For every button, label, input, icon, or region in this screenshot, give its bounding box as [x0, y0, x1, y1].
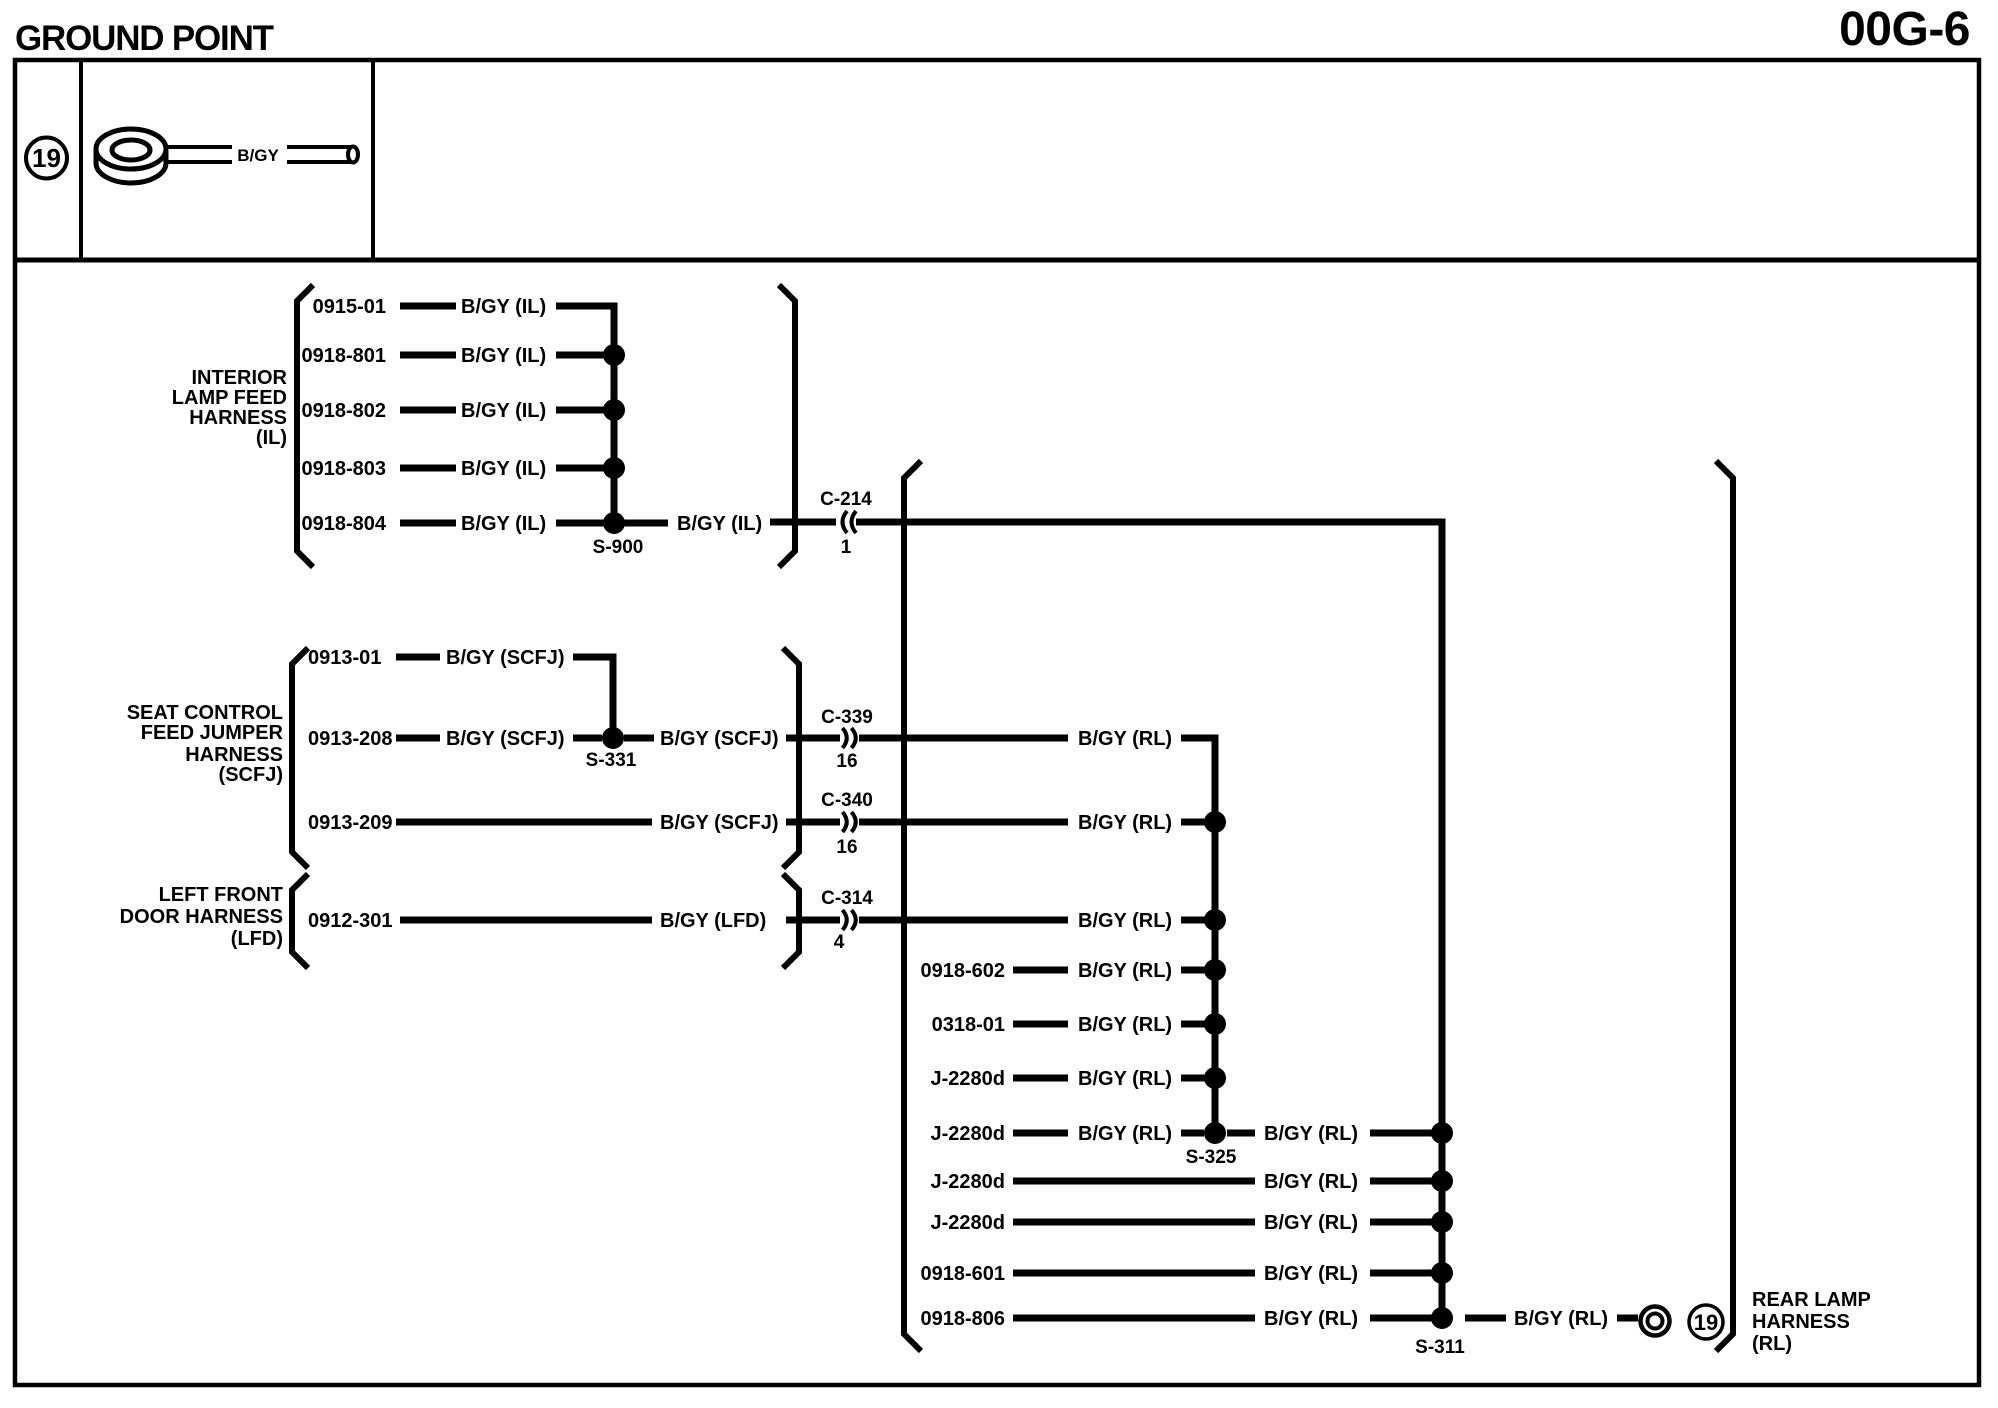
- svg-text:0912-301: 0912-301: [308, 910, 393, 932]
- svg-text:B/GY (RL): B/GY (RL): [1264, 1308, 1358, 1330]
- svg-text:B/GY (IL): B/GY (IL): [461, 345, 546, 367]
- svg-text:0918-601: 0918-601: [920, 1263, 1005, 1285]
- svg-text:B/GY (RL): B/GY (RL): [1264, 1171, 1358, 1193]
- harness label LEFT FRONT DOOR HARNESS (LFD): [120, 884, 283, 950]
- svg-text:C-340: C-340: [821, 790, 873, 811]
- svg-text:LAMP FEED: LAMP FEED: [172, 387, 287, 409]
- svg-text:S-331: S-331: [586, 750, 637, 771]
- bracket SCFJ left: [292, 648, 308, 868]
- svg-text:B/GY (IL): B/GY (IL): [677, 513, 762, 535]
- svg-text:0913-208: 0913-208: [308, 728, 393, 750]
- junction IL bus y=410: [603, 399, 625, 421]
- wire J-2280d B/GY (RL) into splice S-325: [931, 1123, 1205, 1145]
- svg-text:(LFD): (LFD): [231, 928, 283, 950]
- wire 0913-209 B/GY (SCFJ): [308, 812, 840, 834]
- wire 0918-801 B/GY (IL): [301, 345, 614, 367]
- svg-text:0318-01: 0318-01: [932, 1014, 1005, 1036]
- svg-text:B/GY (RL): B/GY (RL): [1514, 1308, 1608, 1330]
- bracket IL right: [779, 285, 795, 567]
- svg-text:0918-801: 0918-801: [301, 345, 386, 367]
- junction IL bus y=355: [603, 344, 625, 366]
- wire J-2280d B/GY (RL): [931, 1068, 1208, 1090]
- svg-text:B/GY (IL): B/GY (IL): [461, 513, 546, 535]
- bracket SCFJ right: [783, 648, 799, 868]
- svg-text:B/GY (IL): B/GY (IL): [461, 400, 546, 422]
- splice S-311: [1415, 1307, 1465, 1358]
- svg-text:0913-209: 0913-209: [308, 812, 393, 834]
- junction RL outer bus y=1273: [1431, 1262, 1453, 1284]
- svg-text:0918-806: 0918-806: [920, 1308, 1005, 1330]
- ground point number 19 (legend): [26, 138, 67, 179]
- splice S-900: [593, 512, 644, 558]
- wire 0918-804 B/GY (IL): [301, 513, 614, 535]
- svg-text:00G-6: 00G-6: [1839, 3, 1970, 56]
- wire B/GY (RL) from C-339 to bus: [859, 728, 1172, 750]
- junction RL bus at C-340 row: [1204, 811, 1226, 833]
- harness label INTERIOR LAMP FEED HARNESS (IL): [172, 367, 288, 449]
- bracket IL left: [297, 285, 313, 567]
- svg-text:19: 19: [1694, 1310, 1718, 1335]
- wire from 0913-01 down to splice S-331: [573, 657, 613, 738]
- wire 0318-01 B/GY (RL): [932, 1014, 1207, 1036]
- bracket RL right: [1716, 461, 1733, 1351]
- svg-text:LEFT FRONT: LEFT FRONT: [159, 884, 283, 906]
- svg-text:B/GY: B/GY: [237, 146, 279, 165]
- splice S-331: [586, 727, 637, 771]
- junction RL inner bus y=1078: [1204, 1067, 1226, 1089]
- wire 0912-301 B/GY (LFD): [308, 910, 840, 932]
- ground point number 19: [1689, 1305, 1723, 1339]
- wire J-2280d B/GY (RL): [931, 1212, 1443, 1234]
- junction RL outer bus y=1222: [1431, 1211, 1453, 1233]
- bracket LFD left: [292, 874, 308, 968]
- svg-text:HARNESS: HARNESS: [189, 407, 287, 429]
- svg-text:HARNESS: HARNESS: [185, 744, 283, 766]
- svg-text:B/GY (IL): B/GY (IL): [461, 458, 546, 480]
- svg-text:S-900: S-900: [593, 537, 644, 558]
- svg-text:0918-804: 0918-804: [301, 513, 386, 535]
- wire IL bus to splice S-900: [556, 306, 614, 523]
- svg-text:B/GY (RL): B/GY (RL): [1078, 1123, 1172, 1145]
- svg-text:B/GY (RL): B/GY (RL): [1264, 1263, 1358, 1285]
- connector C-340 pin 16: [821, 790, 873, 858]
- junction IL bus y=468: [603, 457, 625, 479]
- wire B/GY (SCFJ) from S-331 to C-339: [624, 728, 840, 750]
- wire RL inner bus down to splice S-325: [1181, 738, 1215, 1133]
- svg-text:B/GY (RL): B/GY (RL): [1078, 960, 1172, 982]
- wire 0918-602 B/GY (RL): [920, 960, 1207, 982]
- svg-text:0918-802: 0918-802: [301, 400, 386, 422]
- svg-text:B/GY (SCFJ): B/GY (SCFJ): [446, 728, 565, 750]
- ground point ring terminal: [1641, 1307, 1670, 1336]
- svg-text:B/GY (SCFJ): B/GY (SCFJ): [660, 812, 779, 834]
- svg-text:B/GY (RL): B/GY (RL): [1078, 910, 1172, 932]
- wire B/GY (IL) from S-900 to C-214: [614, 513, 836, 535]
- wire 0913-01 B/GY (SCFJ): [308, 647, 565, 669]
- svg-text:0915-01: 0915-01: [313, 296, 386, 318]
- svg-text:B/GY (LFD): B/GY (LFD): [660, 910, 766, 932]
- svg-text:0918-803: 0918-803: [301, 458, 386, 480]
- svg-text:B/GY (RL): B/GY (RL): [1078, 728, 1172, 750]
- connector C-214 pin 1: [820, 489, 872, 558]
- wire B/GY pigtail (legend): [166, 146, 358, 165]
- svg-text:B/GY (RL): B/GY (RL): [1078, 812, 1172, 834]
- svg-text:INTERIOR: INTERIOR: [191, 367, 287, 389]
- svg-text:B/GY (RL): B/GY (RL): [1078, 1068, 1172, 1090]
- wire B/GY (RL) from C-340 to bus junction: [859, 812, 1207, 834]
- svg-text:(IL): (IL): [256, 427, 287, 449]
- svg-text:4: 4: [834, 932, 845, 953]
- connector C-314 pin 4: [821, 888, 873, 953]
- svg-text:B/GY (IL): B/GY (IL): [461, 296, 546, 318]
- svg-text:0918-602: 0918-602: [920, 960, 1005, 982]
- svg-text:1: 1: [841, 537, 852, 558]
- junction RL inner bus y=1024: [1204, 1013, 1226, 1035]
- svg-text:SEAT CONTROL: SEAT CONTROL: [127, 702, 283, 724]
- svg-text:B/GY (RL): B/GY (RL): [1264, 1123, 1358, 1145]
- connector C-339 pin 16: [821, 707, 873, 772]
- wire J-2280d B/GY (RL): [931, 1171, 1443, 1193]
- svg-text:J-2280d: J-2280d: [931, 1068, 1006, 1090]
- wire 0918-802 B/GY (IL): [301, 400, 614, 422]
- wire 0918-601 B/GY (RL): [920, 1263, 1442, 1285]
- svg-text:GROUND POINT: GROUND POINT: [15, 19, 274, 58]
- svg-text:J-2280d: J-2280d: [931, 1123, 1006, 1145]
- svg-text:C-314: C-314: [821, 888, 873, 909]
- junction RL outer bus y=1181: [1431, 1170, 1453, 1192]
- svg-text:B/GY (RL): B/GY (RL): [1264, 1212, 1358, 1234]
- wire 0918-806 B/GY (RL) into splice S-311: [920, 1308, 1432, 1330]
- harness label REAR LAMP HARNESS (RL): [1752, 1289, 1871, 1355]
- bracket LFD right: [783, 874, 799, 968]
- wire B/GY (RL) from S-325 to outer bus: [1227, 1123, 1442, 1145]
- svg-text:16: 16: [836, 751, 857, 772]
- svg-text:B/GY (SCFJ): B/GY (SCFJ): [660, 728, 779, 750]
- wire 0915-01 B/GY (IL): [313, 296, 547, 318]
- svg-text:B/GY (RL): B/GY (RL): [1078, 1014, 1172, 1036]
- svg-text:C-339: C-339: [821, 707, 873, 728]
- svg-text:J-2280d: J-2280d: [931, 1171, 1006, 1193]
- wire B/GY (RL) from C-314 to bus junction: [859, 910, 1207, 932]
- svg-text:J-2280d: J-2280d: [931, 1212, 1006, 1234]
- harness label SEAT CONTROL FEED JUMPER HARNESS (SCFJ): [127, 702, 284, 786]
- junction RL outer bus at S-325 row: [1431, 1122, 1453, 1144]
- svg-text:(SCFJ): (SCFJ): [219, 764, 283, 786]
- splice S-325: [1186, 1122, 1237, 1168]
- wire 0918-803 B/GY (IL): [301, 458, 614, 480]
- wire B/GY (RL) from S-311 to ground point: [1465, 1308, 1638, 1330]
- svg-text:B/GY (SCFJ): B/GY (SCFJ): [446, 647, 565, 669]
- svg-text:S-311: S-311: [1415, 1337, 1465, 1358]
- wire B/GY (IL) from C-214 to rear lamp harness bus: [856, 522, 1442, 1318]
- junction RL bus at C-314 row: [1204, 909, 1226, 931]
- junction RL inner bus y=970: [1204, 959, 1226, 981]
- svg-text:16: 16: [836, 837, 857, 858]
- svg-text:REAR LAMP: REAR LAMP: [1752, 1289, 1871, 1311]
- svg-text:19: 19: [32, 143, 61, 173]
- svg-text:DOOR HARNESS: DOOR HARNESS: [120, 906, 283, 928]
- svg-text:FEED JUMPER: FEED JUMPER: [141, 722, 284, 744]
- svg-text:0913-01: 0913-01: [308, 647, 381, 669]
- ground lug terminal icon: [96, 129, 166, 183]
- svg-text:C-214: C-214: [820, 489, 872, 510]
- wire 0913-208 B/GY (SCFJ): [308, 728, 602, 750]
- svg-text:S-325: S-325: [1186, 1147, 1237, 1168]
- bracket RL left: [904, 461, 921, 1351]
- svg-text:HARNESS: HARNESS: [1752, 1311, 1850, 1333]
- svg-text:(RL): (RL): [1752, 1333, 1792, 1355]
